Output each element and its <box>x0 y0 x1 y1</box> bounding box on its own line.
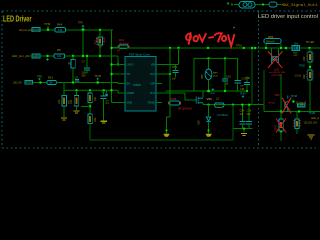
wire row2 drop to IC pin1 <box>118 56 120 65</box>
svg-text:TP LED: TP LED <box>306 41 315 44</box>
svg-text:TP1/B: TP1/B <box>309 112 316 115</box>
wire main top y48 <box>113 47 320 49</box>
wire row2 a <box>40 55 54 57</box>
wire row1 b <box>66 29 113 31</box>
gnd bus y128.7 <box>233 128 253 133</box>
wire row3 drop to IC pin <box>118 83 120 84</box>
svg-text:10k: 10k <box>57 54 62 58</box>
svg-text:TP06: TP06 <box>210 93 216 95</box>
svg-text:R12: R12 <box>48 76 54 80</box>
wire gate from IC <box>185 93 191 100</box>
svg-text:VB1: VB1 <box>275 93 281 97</box>
wire y104.7 to y111.5 step <box>263 105 265 112</box>
svg-text:LED Driver: LED Driver <box>3 13 32 23</box>
capacitor C52 <box>172 65 179 81</box>
wire switch-node rail y91 <box>166 90 248 92</box>
svg-text:LED_EN: LED_EN <box>13 81 22 85</box>
node x299 y111.5 <box>298 110 300 112</box>
port LED_Curr_ADJ <box>12 54 40 58</box>
node y58.4 x209 <box>207 57 209 59</box>
wire x252 vertical <box>251 48 253 105</box>
node x230 y105 <box>232 104 234 106</box>
node x208.5 y105 <box>207 104 209 106</box>
diode pair U32 crossed out <box>268 48 286 77</box>
svg-text:R21: R21 <box>94 96 97 101</box>
svg-text:LX/LO: LX/LO <box>127 64 134 67</box>
svg-text:R64: R64 <box>57 22 63 26</box>
resistor R29 vertical <box>303 48 313 70</box>
ground sym x208.5 <box>206 129 212 137</box>
svg-text:EN: EN <box>127 83 131 86</box>
wire vertical x170 <box>169 48 171 117</box>
wire vertical x82.5 row1-row2 <box>82 30 84 56</box>
svg-text:R189: R189 <box>170 97 177 101</box>
capacitor C38 <box>244 77 251 93</box>
svg-text:R30: R30 <box>303 74 306 79</box>
transistor V31 mosfet <box>191 91 212 105</box>
testpoint TP2 <box>78 21 85 32</box>
port LED_EN <box>13 80 33 84</box>
svg-text:two LED GP GND: two LED GP GND <box>269 71 286 74</box>
resistor R8 vertical <box>68 56 75 83</box>
svg-text:COMP: COMP <box>127 92 135 95</box>
node x310 y67 testpoint <box>299 65 311 69</box>
node x252 y48 <box>251 47 253 49</box>
IC left pins <box>120 65 126 103</box>
svg-text:LED_BCK_SNS: LED_BCK_SNS <box>304 122 317 125</box>
wire x264 vertical <box>263 70 265 105</box>
node x170 y74 <box>169 73 171 75</box>
node y48 x264 <box>265 47 267 49</box>
svg-text:R17: R17 <box>94 39 97 44</box>
svg-text:TP2: TP2 <box>78 21 83 25</box>
wires x111.5 branches to IC pins <box>110 63 119 102</box>
svg-text:VCC: VCC <box>150 73 155 76</box>
port box 1-R0 <box>298 104 306 108</box>
sheet border dashed top <box>2 10 320 12</box>
wire row1 a <box>40 29 55 31</box>
svg-text:1-C0: 1-C0 <box>26 82 32 85</box>
svg-text:CSP: CSP <box>150 83 155 86</box>
wire y111.5 <box>264 111 320 113</box>
svg-text:R13: R13 <box>58 99 61 104</box>
ground sym bottom right <box>308 135 315 139</box>
node y58.4 x225 <box>224 57 226 59</box>
svg-text:TP30: TP30 <box>240 93 247 96</box>
node row2 x82.5 <box>82 55 84 57</box>
transistor VB1 crossed out <box>268 93 291 113</box>
svg-text:TP-08: TP-08 <box>95 75 102 78</box>
resistor R14 bank x76.5 <box>70 90 79 110</box>
node bus x76.5 <box>75 89 77 91</box>
svg-text:C17: C17 <box>242 76 247 80</box>
inductor L2 <box>215 97 228 118</box>
resistor R200 crossed <box>275 112 287 142</box>
svg-text:HO: HO <box>127 73 131 76</box>
node y48 x281 <box>280 47 282 49</box>
svg-text:U30/8: U30/8 <box>133 83 141 87</box>
svg-text:LED_A: LED_A <box>311 117 319 120</box>
ground sym x103.7 <box>101 121 107 124</box>
diode V30 vertical <box>197 105 211 134</box>
wire row3 a <box>33 82 47 84</box>
svg-text:V30: V30 <box>197 120 201 125</box>
svg-text:C16: C16 <box>226 74 231 78</box>
svg-text:V31: V31 <box>207 97 213 101</box>
ground sym x76.5 <box>73 110 79 113</box>
svg-text:C36: C36 <box>240 88 245 91</box>
wire row2 b <box>65 55 118 57</box>
node x113 y48 <box>110 47 112 49</box>
diode V5 vertical <box>201 58 219 91</box>
svg-text:R6: R6 <box>57 48 61 52</box>
lower bus y90.3 <box>64 83 120 94</box>
svg-text:C4D: C4D <box>293 55 298 57</box>
svg-text:LED_Curr_ADJ: LED_Curr_ADJ <box>12 54 31 58</box>
svg-text:C34: C34 <box>240 110 245 113</box>
wire mid y58.4 <box>194 58 238 91</box>
svg-text:GND: GND <box>127 102 133 105</box>
resistor R65 bridge <box>264 35 281 48</box>
resistor R17 vertical <box>94 29 104 56</box>
testpoint TP-08 <box>291 95 298 98</box>
IC right pin names <box>148 64 156 105</box>
svg-text:PGND: PGND <box>148 102 155 105</box>
testpoint TP36 <box>44 22 51 31</box>
capacitor C9 x103.7 <box>101 90 110 120</box>
svg-text:D50: D50 <box>201 74 204 79</box>
wire x230.6 vertical to bottom <box>232 105 234 140</box>
wire top strip <box>234 4 281 6</box>
svg-text:NF: NF <box>117 48 121 52</box>
node y48 x170 <box>169 47 171 49</box>
capacitor C7 <box>82 55 91 78</box>
no-connect x106.5 <box>105 94 107 96</box>
node y48 x178.5 <box>177 47 179 49</box>
svg-text:R29: R29 <box>303 56 306 61</box>
capacitor C34 <box>239 104 245 129</box>
svg-text:LED_smcd_ADJ: LED_smcd_ADJ <box>19 28 32 32</box>
svg-text:TP-08: TP-08 <box>291 95 298 98</box>
svg-text:MAX_Signal_Out1: MAX_Signal_Out1 <box>282 3 319 8</box>
node row2 x100 <box>99 55 101 57</box>
annotation 40V - 70V <box>186 33 234 46</box>
testpoint plus mid <box>207 88 215 95</box>
svg-text:1-R0: 1-R0 <box>298 106 304 108</box>
svg-text:C14: C14 <box>247 110 252 113</box>
svg-text:VIN: VIN <box>151 64 155 67</box>
ground sym x166 <box>163 117 170 137</box>
svg-text:TP36: TP36 <box>44 22 51 26</box>
testpoint TP30 <box>240 93 247 98</box>
component x297 vertical <box>294 112 300 135</box>
IC right pins <box>156 65 185 103</box>
green fleck near annotation <box>233 27 235 29</box>
op-amp U30 box <box>125 53 156 111</box>
svg-text:LED/TDA: LED/TDA <box>272 74 281 77</box>
node bus x103.7 <box>103 89 105 91</box>
ferrite bead FB? top <box>269 2 277 7</box>
connector J? top <box>239 2 255 9</box>
svg-text:C52: C52 <box>172 65 178 69</box>
resistor R30 vertical <box>303 70 313 112</box>
svg-text:TP28: TP28 <box>299 65 305 68</box>
testpoint TP LED <box>306 41 315 49</box>
svg-text:OUT: OUT <box>150 92 156 95</box>
svg-text:C7: C7 <box>82 60 86 64</box>
svg-text:L2: L2 <box>216 97 220 101</box>
dot pair left of connector <box>227 2 233 5</box>
svg-text:MBR: MBR <box>213 73 218 75</box>
ground sym x244 <box>241 133 247 136</box>
svg-text:10uH: 10uH <box>217 107 223 109</box>
node row2 x73 <box>72 55 74 57</box>
node bus x113 <box>110 89 112 91</box>
svg-text:LED driver input control: LED driver input control <box>258 14 318 20</box>
port LED_smcd_ADJ <box>19 28 40 33</box>
wire vertical x178.5 <box>178 48 180 65</box>
wire vertical x113 <box>111 30 113 103</box>
svg-text:R22: R22 <box>94 117 97 122</box>
node x293.4 y101.5 <box>292 100 294 102</box>
capacitor C17 <box>234 76 246 91</box>
resistor R21 chain x90 upper <box>88 90 97 114</box>
no-connect stub x106.5 <box>106 90 108 93</box>
node row3 x73 <box>72 81 74 83</box>
svg-text:BRU5HGN4V: BRU5HGN4V <box>178 108 193 110</box>
svg-text:TP18: TP18 <box>236 44 242 47</box>
node on wire x208 <box>207 47 209 49</box>
section divider dashed vertical <box>258 11 260 148</box>
resistor R6 <box>54 48 65 58</box>
capacitor C16 <box>222 58 232 92</box>
wire row3 b <box>56 82 118 84</box>
svg-text:10k: 10k <box>58 28 63 32</box>
IC left pin names <box>127 64 135 105</box>
node row1 junction <box>47 29 49 31</box>
node y48 x286 <box>285 47 288 50</box>
svg-text:R200: R200 <box>275 124 278 131</box>
svg-text:R8: R8 <box>68 62 72 66</box>
svg-text:50V: 50V <box>82 75 87 78</box>
node y48 x255 <box>254 47 256 49</box>
svg-text:TP9: TP9 <box>37 74 42 78</box>
resistor R189 <box>169 97 193 110</box>
resistor R19 NF <box>112 38 130 52</box>
svg-text:VB GA: VB GA <box>268 102 275 105</box>
resistor R22 chain x90 lower <box>88 114 97 140</box>
sheet border dashed bottom <box>2 147 318 149</box>
svg-text:16V: 16V <box>105 103 109 105</box>
svg-text:FET Buck Conv: FET Buck Conv <box>129 53 150 57</box>
sheet border dashed left <box>1 11 3 148</box>
resistor R12 <box>47 76 56 85</box>
resistor R13 bank x64 <box>58 90 71 117</box>
testpoint row3 <box>37 74 42 83</box>
testpoint row2 <box>46 55 49 61</box>
wire x281 vertical <box>280 74 282 112</box>
ground sym x64 <box>61 117 67 120</box>
diode D4 block <box>292 42 300 57</box>
wire out y105 <box>203 104 264 106</box>
capacitor C8 small above row3 <box>75 77 80 82</box>
node bus x90 <box>89 89 91 91</box>
wire bottom pgnd <box>90 139 233 141</box>
resistor R64 <box>55 22 66 32</box>
node x90 y106.3 <box>89 105 91 107</box>
wire stub y106.3 <box>81 105 90 107</box>
svg-text:1uF: 1uF <box>172 79 177 81</box>
node x281 y111.5 <box>280 110 282 112</box>
svg-text:680mW: 680mW <box>266 40 275 43</box>
node top strip <box>262 3 264 5</box>
node x243.7 y48 <box>243 47 245 49</box>
testpoint TP-08 row3 <box>95 75 102 84</box>
capacitor C14 <box>246 104 252 129</box>
svg-text:R14: R14 <box>70 99 73 104</box>
svg-text:1-82: 1-82 <box>33 54 39 58</box>
svg-text:1-2.2k: 1-2.2k <box>295 75 302 77</box>
svg-text:2-1.8: 2-1.8 <box>33 28 39 32</box>
svg-text:L2=39uH: L2=39uH <box>217 113 228 117</box>
